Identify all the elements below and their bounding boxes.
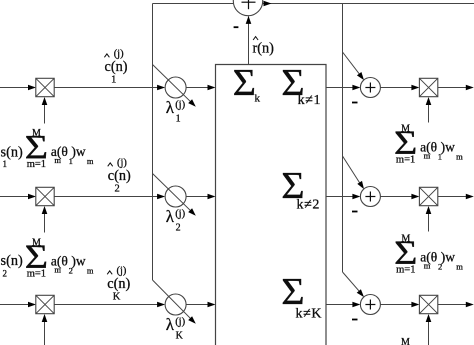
svg-text:c(n): c(n) bbox=[108, 168, 131, 184]
wire output row 2 to right edge bbox=[438, 196, 471, 198]
wire input s1 from left edge bbox=[0, 87, 29, 89]
multiplier X2R despreader bbox=[419, 187, 437, 205]
diagonal residual feed from bus B into summer S2 bbox=[343, 156, 362, 186]
arrowhead into XKR bbox=[411, 302, 419, 308]
wire sum block output row 1 bbox=[326, 87, 355, 89]
svg-text:1: 1 bbox=[3, 159, 8, 169]
wire input s2 from left edge bbox=[0, 196, 29, 198]
svg-text:m: m bbox=[456, 152, 463, 162]
svg-text:K: K bbox=[176, 330, 184, 341]
svg-text:)w: )w bbox=[71, 253, 85, 268]
arrowhead output row 2 bbox=[466, 194, 474, 200]
multiplier X1R despreader bbox=[419, 78, 437, 96]
arrowhead into sum block row 1 bbox=[208, 85, 216, 91]
svg-text:s(n): s(n) bbox=[1, 144, 23, 160]
weight arrow up into X2R bbox=[428, 210, 430, 232]
multiplier XKL spreader bbox=[36, 295, 54, 313]
minus sign at summer S2 bbox=[352, 211, 358, 213]
svg-text:2: 2 bbox=[114, 184, 119, 195]
svg-text:(j): (j) bbox=[175, 209, 185, 220]
svg-text:(j): (j) bbox=[117, 266, 127, 277]
svg-text:)w: )w bbox=[441, 140, 455, 155]
diagonal residual feed from bus B into summer S1 bbox=[343, 52, 362, 77]
arrowhead into sum block row K bbox=[208, 302, 216, 308]
svg-text:1: 1 bbox=[176, 113, 181, 124]
arrowhead into summer S2 bbox=[352, 194, 360, 200]
plus sign in summer S0 bbox=[242, 0, 256, 9]
arrowhead output row 1 bbox=[466, 85, 474, 91]
svg-text:2: 2 bbox=[176, 222, 181, 233]
weight arrow up into X1L bbox=[44, 101, 46, 124]
arrowhead into X2R bbox=[411, 194, 419, 200]
arrowhead into multiplier XKL bbox=[28, 302, 36, 308]
svg-text:λ: λ bbox=[166, 98, 175, 117]
svg-text:m: m bbox=[54, 155, 61, 165]
wire XKL to gain lambdaK bbox=[54, 304, 159, 306]
summer S2 circle with plus bbox=[360, 187, 380, 207]
arrowhead into summer S1 bbox=[352, 85, 360, 91]
weight arrow up into X2L bbox=[44, 210, 46, 233]
gain multiplier lambdaK circle bbox=[165, 294, 186, 315]
svg-text:k≠2: k≠2 bbox=[297, 198, 320, 213]
svg-text:(j): (j) bbox=[175, 100, 185, 111]
wire summer S1 to multiplier X1R bbox=[380, 87, 413, 89]
svg-text:k: k bbox=[255, 93, 261, 105]
wire X2L to gain lambda2 bbox=[54, 196, 159, 198]
arrowhead into multiplier X1L bbox=[28, 85, 36, 91]
svg-text:K: K bbox=[113, 292, 121, 303]
svg-text:)w: )w bbox=[441, 250, 455, 265]
summer SK circle with plus bbox=[360, 295, 380, 315]
weight arrow up into X1R bbox=[428, 101, 430, 123]
wire vertical bus B residual feed bbox=[342, 4, 344, 273]
svg-text:m=1: m=1 bbox=[396, 155, 415, 166]
svg-text:λ: λ bbox=[166, 207, 175, 226]
svg-text:m=1: m=1 bbox=[27, 268, 46, 279]
svg-text:m: m bbox=[424, 151, 431, 161]
wire input sK from left edge bbox=[0, 304, 29, 306]
svg-text:k≠1: k≠1 bbox=[298, 93, 321, 108]
wire rhat(n) from sum block to summer S0 bbox=[248, 17, 250, 65]
minus sign at summer SK bbox=[352, 319, 358, 321]
svg-text:(j): (j) bbox=[117, 158, 127, 169]
svg-text:M: M bbox=[401, 337, 410, 345]
svg-text:1: 1 bbox=[438, 152, 442, 162]
svg-text:c(n): c(n) bbox=[107, 276, 130, 292]
svg-text:λ: λ bbox=[166, 315, 175, 334]
wire lambda1 to sum block bbox=[186, 87, 209, 89]
arrowhead on top bus after summer S0 bbox=[264, 1, 272, 7]
svg-text:m=1: m=1 bbox=[396, 265, 415, 276]
svg-text:m: m bbox=[456, 262, 463, 272]
svg-text:m: m bbox=[87, 156, 94, 166]
svg-text:Σ: Σ bbox=[233, 62, 256, 104]
arrowhead into lambdaK bbox=[157, 302, 165, 308]
svg-text:2: 2 bbox=[3, 268, 8, 278]
wire sum block output row 2 bbox=[326, 196, 355, 198]
block SUM interference summation open-bottom box bbox=[216, 65, 327, 345]
svg-text:1: 1 bbox=[69, 156, 73, 166]
summer S0 top bbox=[233, 0, 262, 16]
wire summer SK to multiplier XKR bbox=[380, 304, 413, 306]
svg-text:2: 2 bbox=[438, 262, 442, 272]
svg-text:m: m bbox=[54, 265, 61, 275]
arrowhead into X1R bbox=[411, 85, 419, 91]
adaptive arrow through lambda1 from bus A bbox=[153, 65, 194, 105]
weight arrow up into XKL bbox=[44, 318, 46, 345]
weight arrow up into XKR bbox=[428, 318, 430, 345]
multiplier X2L spreader bbox=[36, 187, 54, 205]
wire X1L to gain lambda1 bbox=[54, 87, 159, 89]
arrowhead output row K bbox=[466, 302, 474, 308]
wire vertical bus A for lambda control bbox=[152, 4, 154, 281]
wire output row K to right edge bbox=[438, 304, 471, 306]
gain multiplier lambda1 circle bbox=[165, 77, 186, 98]
minus sign at rhat input of S0 bbox=[234, 26, 239, 28]
svg-text:2: 2 bbox=[69, 265, 73, 275]
wire lambda2 to sum block bbox=[186, 196, 209, 198]
svg-text:m: m bbox=[87, 266, 94, 276]
multiplier XKR despreader bbox=[419, 295, 437, 313]
wire sum block output row K bbox=[326, 304, 355, 306]
svg-text:1: 1 bbox=[111, 75, 116, 86]
wire top bus left segment bbox=[153, 3, 234, 5]
summer S1 circle with plus bbox=[360, 78, 380, 98]
svg-text:r(n): r(n) bbox=[253, 41, 275, 57]
arrowhead into multiplier X2L bbox=[28, 194, 36, 200]
svg-text:k≠K: k≠K bbox=[296, 307, 323, 322]
wire lambdaK to sum block bbox=[186, 304, 209, 306]
svg-text:(j): (j) bbox=[114, 49, 124, 60]
wire output row 1 to right edge bbox=[438, 87, 471, 89]
adaptive arrow through lambdaK from bus A bbox=[153, 280, 194, 322]
svg-text:m: m bbox=[424, 261, 431, 271]
arrowhead into summer SK bbox=[352, 302, 360, 308]
diagonal residual feed from bus B into summer SK bbox=[343, 272, 362, 294]
wire summer S2 to multiplier X2R bbox=[380, 196, 413, 198]
svg-text:s(n): s(n) bbox=[1, 253, 23, 269]
arrowhead rhat into S0 bbox=[246, 16, 252, 24]
svg-text:(j): (j) bbox=[175, 317, 185, 328]
svg-text:c(n): c(n) bbox=[105, 59, 128, 75]
svg-text:)w: )w bbox=[71, 144, 85, 159]
gain multiplier lambda2 circle bbox=[165, 186, 186, 207]
arrowhead into sum block row 2 bbox=[208, 194, 216, 200]
adaptive arrow through lambda2 from bus A bbox=[153, 174, 194, 214]
minus sign at summer S1 bbox=[352, 102, 358, 104]
arrowhead into lambda1 bbox=[157, 85, 165, 91]
multiplier X1L spreader bbox=[36, 78, 54, 96]
svg-text:m=1: m=1 bbox=[27, 159, 46, 170]
arrowhead into lambda2 bbox=[157, 194, 165, 200]
wire top bus right segment bbox=[263, 3, 474, 5]
